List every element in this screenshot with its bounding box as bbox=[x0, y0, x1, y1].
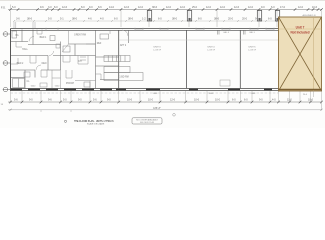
bottom wall solid segments bbox=[11, 89, 272, 91]
svg-text:20-0: 20-0 bbox=[242, 17, 248, 21]
svg-text:BED 1: BED 1 bbox=[40, 37, 47, 39]
svg-text:4-0: 4-0 bbox=[272, 98, 276, 101]
top wall stubs units 4/5 bbox=[218, 30, 246, 34]
svg-text:11-0: 11-0 bbox=[287, 98, 292, 101]
svg-text:20-0: 20-0 bbox=[228, 17, 234, 21]
svg-text:12-0: 12-0 bbox=[206, 6, 212, 9]
top witness lines bbox=[11, 5, 322, 28]
svg-text:1,248 SF: 1,248 SF bbox=[207, 49, 216, 51]
svg-text:BED 2: BED 2 bbox=[17, 63, 24, 65]
svg-text:PORCH: PORCH bbox=[66, 83, 75, 85]
svg-text:5-1: 5-1 bbox=[60, 17, 64, 21]
extra interior detail left section bbox=[11, 30, 110, 89]
svg-text:10-0: 10-0 bbox=[148, 98, 154, 101]
svg-text:6-0: 6-0 bbox=[271, 6, 275, 9]
svg-text:F.G.: F.G. bbox=[1, 6, 6, 10]
svg-text:9-0: 9-0 bbox=[29, 98, 33, 101]
svg-text:3-0: 3-0 bbox=[48, 6, 52, 9]
svg-text:1,248 SF: 1,248 SF bbox=[153, 49, 162, 51]
svg-text:12-0: 12-0 bbox=[248, 6, 254, 9]
svg-text:9-6: 9-6 bbox=[48, 98, 52, 101]
svg-text:6-0: 6-0 bbox=[268, 17, 272, 21]
window sill lines top wall bbox=[135, 28, 274, 30]
window ticks top wall bbox=[46, 28, 274, 31]
svg-text:12-0: 12-0 bbox=[220, 6, 226, 9]
svg-text:14-0: 14-0 bbox=[109, 6, 115, 9]
svg-text:10-0: 10-0 bbox=[215, 98, 221, 101]
svg-text:5-0: 5-0 bbox=[48, 17, 52, 21]
svg-text:4-6: 4-6 bbox=[88, 17, 92, 21]
svg-text:38-0: 38-0 bbox=[172, 17, 178, 21]
svg-text:8-0: 8-0 bbox=[54, 6, 58, 9]
bottom dashed line bbox=[11, 92, 279, 94]
top dimension line bbox=[8, 9, 322, 11]
svg-text:9-6: 9-6 bbox=[40, 6, 44, 9]
svg-text:BA: BA bbox=[15, 34, 19, 37]
svg-text:9-0: 9-0 bbox=[261, 6, 265, 9]
svg-text:5-6: 5-6 bbox=[93, 98, 97, 101]
second dimension line bbox=[14, 20, 278, 22]
loft break line bbox=[119, 39, 278, 41]
svg-text:10-6: 10-6 bbox=[308, 98, 314, 101]
svg-text:DEN: DEN bbox=[42, 63, 47, 65]
svg-text:10-6: 10-6 bbox=[194, 98, 200, 101]
top dim ticks bbox=[9, 8, 323, 11]
svg-text:6-0: 6-0 bbox=[158, 17, 162, 21]
column tabs bbox=[147, 11, 279, 22]
svg-text:12-0: 12-0 bbox=[180, 6, 186, 9]
svg-text:GREAT RM: GREAT RM bbox=[74, 34, 86, 37]
building top wall bbox=[11, 29, 279, 31]
kitchen boxes bbox=[12, 31, 143, 88]
svg-text:APT 2: APT 2 bbox=[120, 44, 127, 47]
svg-text:8-0: 8-0 bbox=[198, 17, 202, 21]
left unit interior walls bbox=[11, 30, 129, 89]
svg-text:Not Included: Not Included bbox=[290, 31, 309, 35]
svg-text:38-6: 38-6 bbox=[128, 17, 134, 21]
building left wall bbox=[10, 29, 12, 92]
svg-text:12-6: 12-6 bbox=[234, 6, 240, 9]
svg-text:1,248 SF: 1,248 SF bbox=[248, 49, 257, 51]
stamp box bbox=[132, 118, 162, 124]
svg-text:5-0: 5-0 bbox=[63, 98, 67, 101]
svg-text:1 BD RM: 1 BD RM bbox=[119, 77, 128, 79]
second dim text bbox=[16, 17, 272, 21]
svg-text:10-6: 10-6 bbox=[312, 6, 318, 9]
interior faint lines bbox=[313, 17, 315, 91]
top dim text bbox=[12, 6, 318, 9]
svg-text:GBL 5: GBL 5 bbox=[249, 32, 256, 34]
svg-text:8-0: 8-0 bbox=[81, 6, 85, 9]
svg-text:9-0: 9-0 bbox=[78, 98, 82, 101]
svg-text:38-0: 38-0 bbox=[72, 17, 78, 21]
svg-text:6-0: 6-0 bbox=[114, 17, 118, 21]
svg-text:UNIT 3: UNIT 3 bbox=[154, 47, 162, 49]
unit wall x=185.7 bbox=[186, 30, 188, 88]
bottom dim text bbox=[14, 98, 314, 101]
svg-text:12-0: 12-0 bbox=[138, 6, 144, 9]
svg-text:3-6: 3-6 bbox=[16, 17, 20, 21]
svg-text:HALL: HALL bbox=[22, 48, 28, 51]
svg-text:10-6: 10-6 bbox=[127, 98, 133, 101]
X diagonals bbox=[279, 17, 322, 91]
svg-text:8-6: 8-6 bbox=[98, 6, 102, 9]
svg-text:9-0: 9-0 bbox=[259, 98, 263, 101]
svg-text:6-0: 6-0 bbox=[244, 98, 248, 101]
stairs bbox=[104, 56, 130, 73]
svg-text:9-0: 9-0 bbox=[89, 6, 93, 9]
overall dimension line bbox=[8, 109, 322, 111]
svg-text:Unit 7: Unit 7 bbox=[296, 26, 305, 30]
svg-text:SEE NEW PLAN: SEE NEW PLAN bbox=[140, 121, 155, 124]
unit 7 excluded area bbox=[279, 17, 322, 97]
svg-text:6-0: 6-0 bbox=[232, 98, 236, 101]
bottom witness lines bbox=[11, 91, 322, 102]
svg-text:188'-8": 188'-8" bbox=[153, 107, 161, 110]
bottom dimension line bbox=[8, 101, 322, 103]
room labels bbox=[15, 34, 128, 86]
svg-text:5-0: 5-0 bbox=[12, 6, 16, 9]
unit wall x=240.3 bbox=[239, 30, 241, 88]
misc unit marks bbox=[220, 80, 230, 86]
svg-text:12-6: 12-6 bbox=[62, 6, 68, 9]
door arcs bbox=[29, 30, 128, 70]
svg-text:0 4 8: 0 4 8 bbox=[100, 124, 104, 126]
svg-text:9-0: 9-0 bbox=[107, 98, 111, 101]
wall stubs above top wall bbox=[14, 22, 35, 28]
bottom-wall annotations bbox=[31, 85, 256, 95]
north arrow mark bbox=[173, 114, 176, 117]
svg-text:ASSUMED N: ASSUMED N bbox=[302, 14, 315, 17]
svg-text:12-6: 12-6 bbox=[124, 6, 130, 9]
svg-text:12-0: 12-0 bbox=[166, 6, 172, 9]
svg-text:5-6: 5-6 bbox=[14, 98, 18, 101]
svg-text:GBL 4: GBL 4 bbox=[223, 32, 230, 34]
unit wall x=118.7 bbox=[118, 30, 120, 88]
scan edge bbox=[0, 0, 325, 2]
svg-text:REF: REF bbox=[97, 43, 102, 45]
svg-text:25-0: 25-0 bbox=[192, 6, 198, 9]
section markers left bbox=[3, 32, 11, 92]
svg-text:38-6: 38-6 bbox=[27, 17, 33, 21]
building bottom wall bbox=[11, 89, 279, 91]
svg-text:38-6: 38-6 bbox=[152, 6, 158, 9]
svg-text:KIT: KIT bbox=[78, 61, 82, 63]
svg-text:4-0: 4-0 bbox=[100, 17, 104, 21]
svg-text:12-0: 12-0 bbox=[298, 6, 304, 9]
svg-text:UNIT 5: UNIT 5 bbox=[249, 47, 257, 49]
svg-text:17-0: 17-0 bbox=[280, 6, 286, 9]
svg-text:UNIT 4: UNIT 4 bbox=[208, 47, 216, 49]
svg-text:12-6: 12-6 bbox=[170, 98, 176, 101]
svg-text:1-2: 1-2 bbox=[142, 17, 146, 21]
